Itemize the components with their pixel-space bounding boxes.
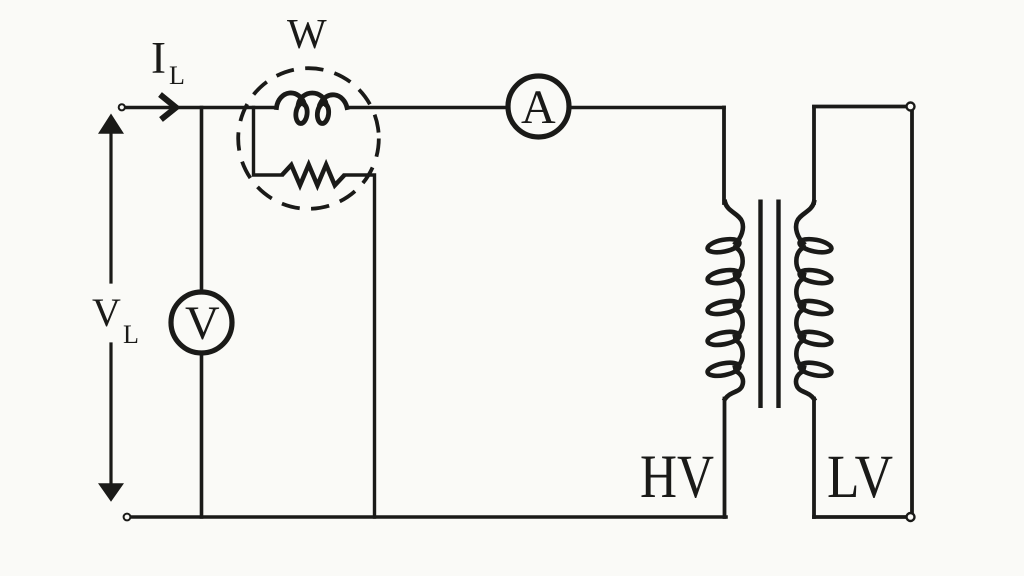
wire: LV top lead to right terminal bbox=[814, 105, 908, 109]
transformer LV winding (secondary coil) bbox=[796, 202, 833, 399]
svg-text:HV: HV bbox=[640, 444, 714, 511]
wire: bottom rail bbox=[131, 515, 726, 519]
wire: HV side vertical down to coil bbox=[722, 108, 726, 204]
wire: short-circuit link on right side bbox=[910, 110, 914, 514]
wire: top rail from input terminal to HV corner bbox=[126, 106, 725, 110]
label I_L bbox=[151, 33, 185, 90]
terminal: input top-left bbox=[119, 104, 125, 110]
svg-text:LV: LV bbox=[827, 444, 893, 511]
svg-text:I: I bbox=[151, 33, 166, 83]
wattmeter current coil (inductor) on top wire bbox=[277, 93, 348, 124]
wire: HV side vertical from coil to bottom rail bbox=[723, 399, 727, 518]
wire: LV vertical upper bbox=[812, 107, 816, 203]
label V_L bbox=[92, 290, 139, 349]
svg-text:L: L bbox=[169, 61, 185, 90]
arrow: V_L bottom arrowhead bbox=[98, 483, 124, 502]
svg-text:V: V bbox=[92, 290, 121, 335]
terminal: right top bbox=[907, 103, 915, 111]
svg-text:V: V bbox=[185, 297, 220, 350]
wire: LV vertical lower bbox=[812, 399, 816, 518]
arrow: V_L top arrowhead bbox=[98, 114, 124, 134]
svg-text:A: A bbox=[521, 81, 556, 134]
wire: voltmeter branch upper bbox=[200, 108, 204, 292]
ammeter A bbox=[508, 76, 569, 137]
wattmeter pressure coil: right lead and wire down to bottom rail bbox=[345, 175, 375, 517]
terminal: input bottom-left bbox=[124, 514, 131, 521]
arrow: V_L double-headed vertical arrow line bbox=[109, 134, 112, 483]
transformer core (two lines) bbox=[761, 200, 779, 409]
wire: LV bottom lead to right terminal bbox=[814, 515, 908, 519]
wire: voltmeter branch lower bbox=[200, 355, 204, 517]
svg-text:W: W bbox=[287, 12, 327, 58]
voltmeter V bbox=[171, 292, 232, 353]
transformer HV winding (primary coil) bbox=[706, 202, 743, 399]
wattmeter pressure coil resistor zigzag bbox=[282, 165, 345, 186]
wattmeter pressure coil branch: left wire down from top rail bbox=[254, 108, 283, 176]
wattmeter W dashed boundary bbox=[238, 68, 379, 209]
svg-text:L: L bbox=[123, 320, 139, 349]
terminal: right bottom bbox=[907, 513, 915, 521]
arrow: I_L current direction arrowhead bbox=[160, 95, 176, 120]
